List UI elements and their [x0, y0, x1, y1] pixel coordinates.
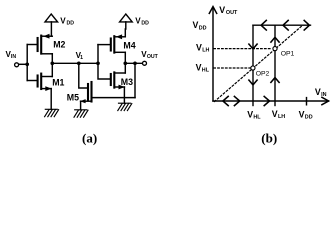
label VLH (x axis): [272, 109, 285, 120]
y axis: [209, 7, 216, 101]
label M4: [123, 40, 135, 50]
x axis sweep arrows: [223, 96, 270, 105]
svg-text:HL: HL: [253, 114, 261, 120]
svg-text:OUT: OUT: [147, 54, 159, 60]
label M5: [67, 92, 79, 102]
label VHL (y axis level): [196, 62, 210, 73]
wire M5 drain to M3 source node: [92, 97, 136, 99]
svg-text:V: V: [135, 16, 141, 25]
svg-text:V: V: [60, 16, 66, 25]
wire M5 source to ground: [80, 101, 82, 110]
wire V1 to M5 gate: [79, 63, 88, 88]
label VDD (right): [135, 16, 149, 26]
label OP2: [256, 70, 270, 77]
svg-text:M5: M5: [67, 92, 79, 102]
label OP1: [281, 51, 295, 58]
wire gates node down to M3 gate: [98, 63, 111, 79]
junction node V1 at drains: [50, 61, 54, 65]
power VDD symbol (right): [120, 14, 133, 36]
wire M1 source to ground: [50, 89, 52, 110]
transistor M4 (PMOS): [98, 34, 125, 52]
wire output node riser down to feedback wire: [134, 63, 136, 97]
svg-text:IN: IN: [321, 92, 326, 98]
svg-text:DD: DD: [141, 21, 149, 27]
wire gates node to M4 gate (vertical from V1 junction up): [97, 45, 99, 64]
tick VDD on x axis: [306, 98, 308, 105]
output node wire: [125, 62, 142, 64]
label VIN (x axis): [315, 87, 327, 98]
ground under M3: [118, 103, 132, 110]
junction input node: [25, 62, 29, 66]
label VDD (y axis level): [193, 20, 207, 31]
ground under M1: [45, 109, 59, 116]
svg-text:LH: LH: [202, 47, 209, 53]
label M2: [53, 40, 65, 50]
caption (b): [261, 131, 277, 146]
label VDD (left): [60, 16, 74, 26]
label M3: [121, 77, 133, 87]
junction output node at M3 drain riser: [133, 61, 137, 65]
label VLH (y axis level): [196, 42, 209, 53]
svg-text:OP2: OP2: [256, 70, 270, 77]
svg-text:OUT: OUT: [226, 10, 238, 16]
wire M4 drain down through output node to M3 drain lead: [124, 52, 126, 73]
node V1 wire: [52, 62, 98, 64]
output terminal VOUT: [143, 61, 147, 65]
label VHL (x axis): [247, 109, 261, 120]
svg-text:V: V: [272, 109, 278, 119]
hysteresis rising segment at VLH: [271, 25, 279, 105]
transistor M1 (NMOS): [27, 74, 52, 91]
label VOUT (y axis): [219, 5, 238, 16]
svg-text:V: V: [193, 20, 199, 30]
svg-text:M3: M3: [121, 77, 133, 87]
ground under M5: [74, 110, 88, 117]
hysteresis falling segment at VHL: [249, 25, 257, 105]
wire M3 source to ground (joined by M5 drain): [123, 87, 125, 103]
junction V1 to M4/M3 gates: [96, 61, 100, 65]
svg-text:DD: DD: [305, 115, 313, 121]
wire input node VIN to gates of M2 and M1: [26, 45, 28, 81]
transistor M3 (NMOS): [111, 72, 126, 89]
svg-text:V: V: [196, 62, 202, 72]
svg-text:(b): (b): [261, 131, 277, 146]
junction output node at M4 drain: [123, 61, 127, 65]
svg-text:V: V: [196, 42, 202, 52]
svg-text:M4: M4: [123, 40, 135, 50]
dashed unity-gain diagonal: [215, 26, 303, 102]
junction V1 to M5 gate: [77, 61, 81, 65]
svg-text:V: V: [315, 87, 321, 97]
label VOUT: [141, 50, 158, 60]
svg-text:IN: IN: [11, 54, 16, 60]
operating point OP1 circle: [273, 47, 277, 51]
dashed level VLH: [214, 48, 272, 50]
operating point OP2 circle: [251, 66, 255, 70]
svg-text:OP1: OP1: [281, 51, 295, 58]
hysteresis top segment at VDD: [253, 20, 311, 30]
wire M2 drain / M1 drain vertical: [51, 54, 53, 77]
label VDD (x axis): [299, 110, 313, 121]
power VDD symbol (left): [45, 14, 58, 36]
transistor M5 (NMOS): [80, 82, 92, 103]
svg-text:1: 1: [80, 55, 83, 61]
caption (a): [82, 131, 97, 146]
svg-text:DD: DD: [199, 25, 207, 31]
svg-text:HL: HL: [202, 67, 210, 73]
x axis: [213, 97, 329, 104]
transistor M2 (PMOS): [27, 34, 52, 54]
svg-text:V: V: [247, 109, 253, 119]
label VIN: [6, 50, 17, 60]
dashed level VHL: [214, 67, 251, 69]
svg-text:V: V: [299, 110, 305, 120]
svg-text:V: V: [219, 5, 225, 15]
svg-text:DD: DD: [67, 21, 75, 27]
svg-text:M1: M1: [52, 78, 64, 88]
label V1: [76, 51, 84, 61]
input terminal VIN: [15, 63, 28, 67]
label M1: [52, 78, 64, 88]
svg-text:LH: LH: [278, 114, 285, 120]
svg-text:(a): (a): [82, 131, 97, 146]
svg-text:M2: M2: [53, 40, 65, 50]
